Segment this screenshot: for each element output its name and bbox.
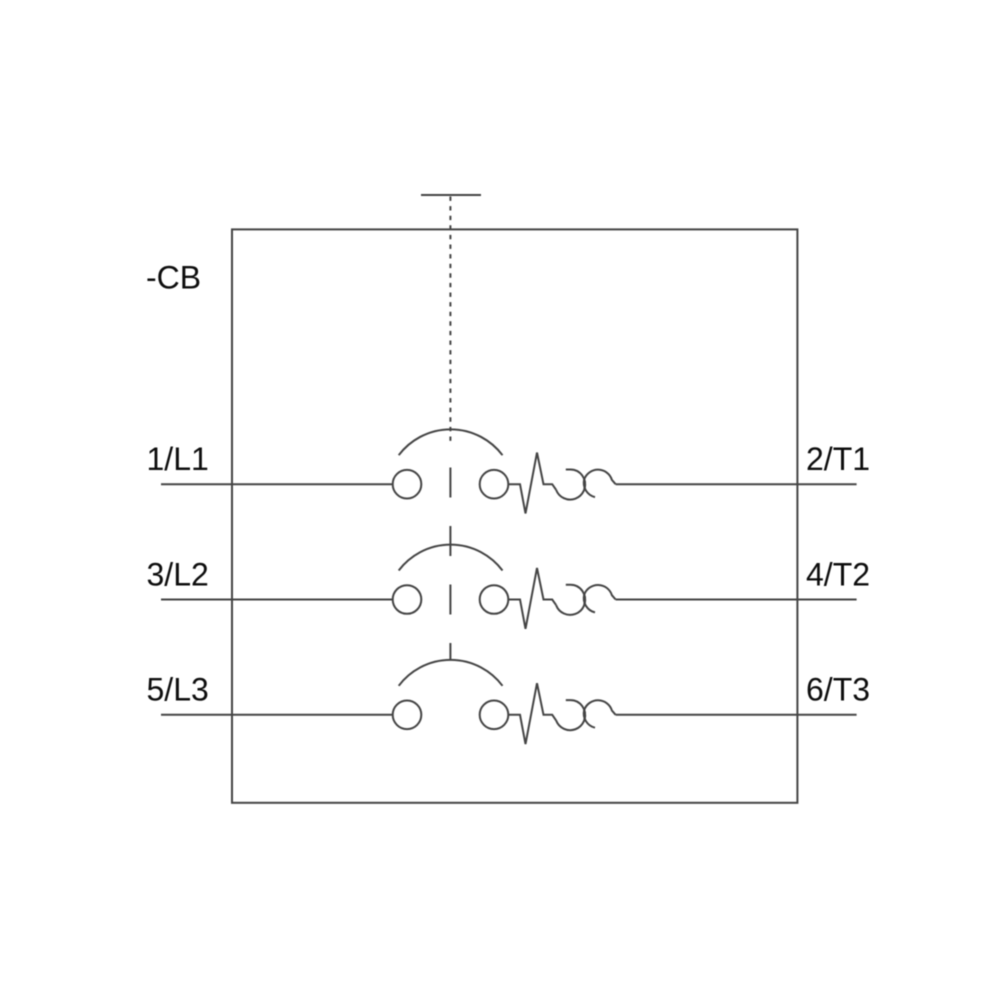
pole 2 thermal overload release zigzag	[508, 568, 556, 629]
pole 1 right contact circle	[480, 470, 509, 499]
pole 2 coil loop overlap arc (right circle bottom)	[584, 595, 595, 613]
pole 1 coil loop overlap arc (right circle bottom)	[584, 479, 595, 497]
operating mechanism handle bar	[421, 194, 481, 196]
pole 3 magnetic release coil conductor	[556, 700, 616, 730]
pole 1 thermal overload release zigzag	[508, 453, 556, 514]
wire: left lead to pole 2 terminal 3/L2	[161, 599, 393, 601]
pole 3 thermal overload release zigzag	[508, 683, 556, 744]
pole 2 right contact circle	[480, 585, 509, 614]
pole 1 left contact circle	[393, 470, 422, 499]
circuit breaker CB enclosure outline	[232, 229, 797, 802]
svg-text:5/L3: 5/L3	[147, 672, 209, 708]
pole 1 coil loop overlap arc (left circle top)	[566, 470, 585, 490]
wire: right lead from pole 1 to terminal 2/T1	[616, 483, 857, 485]
pole 2 magnetic release coil conductor	[556, 585, 616, 615]
pole 3 coil loop overlap arc (right circle bottom)	[584, 710, 595, 728]
wire: right lead from pole 3 to terminal 6/T3	[616, 714, 857, 716]
mechanism linkage dashed line	[449, 468, 451, 661]
wire: left lead to pole 3 terminal 5/L3	[161, 714, 393, 716]
svg-text:6/T3: 6/T3	[806, 672, 870, 708]
svg-text:4/T2: 4/T2	[806, 556, 870, 592]
pole 1 contact actuator arc	[399, 429, 503, 455]
svg-text:2/T1: 2/T1	[806, 441, 870, 477]
pole 3 right contact circle	[480, 701, 509, 730]
pole 3 coil loop overlap arc (left circle top)	[566, 700, 585, 720]
wire: left lead to pole 1 terminal 1/L1	[161, 483, 393, 485]
pole 3 contact actuator arc	[399, 660, 503, 686]
pole 2 contact actuator arc	[399, 545, 503, 571]
svg-text:1/L1: 1/L1	[147, 441, 209, 477]
svg-text:-CB: -CB	[146, 260, 201, 296]
pole 3 left contact circle	[393, 701, 422, 730]
svg-text:3/L2: 3/L2	[147, 556, 209, 592]
pole 2 left contact circle	[393, 585, 422, 614]
pole 1 magnetic release coil conductor	[556, 470, 616, 500]
wire: right lead from pole 2 to terminal 4/T2	[616, 599, 857, 601]
mechanism linkage dotted line	[449, 197, 451, 442]
pole 2 coil loop overlap arc (left circle top)	[566, 585, 585, 605]
